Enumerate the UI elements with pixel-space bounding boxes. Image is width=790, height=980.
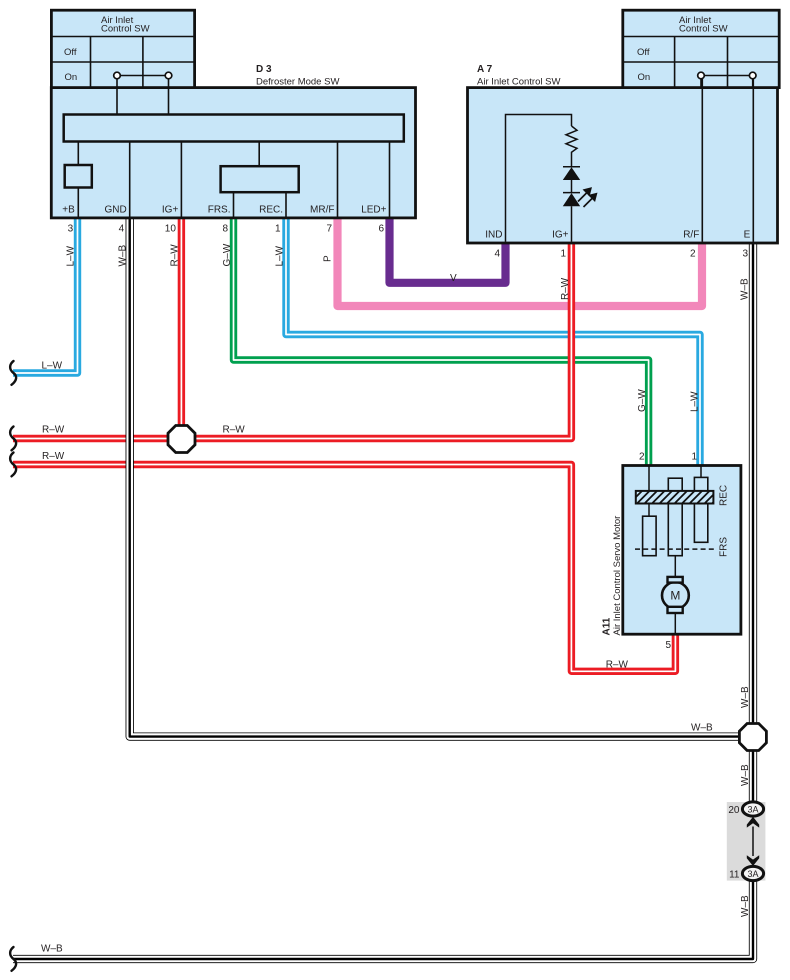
svg-text:L–W: L–W bbox=[689, 391, 700, 412]
svg-text:On: On bbox=[638, 72, 651, 83]
svg-text:L–W: L–W bbox=[274, 245, 285, 266]
svg-text:G–W: G–W bbox=[637, 389, 648, 412]
svg-text:+B: +B bbox=[62, 205, 75, 216]
svg-text:W–B: W–B bbox=[740, 895, 751, 917]
svg-text:11: 11 bbox=[729, 870, 740, 881]
svg-text:Off: Off bbox=[637, 47, 650, 58]
svg-text:1: 1 bbox=[560, 249, 566, 260]
svg-text:R–W: R–W bbox=[560, 277, 571, 300]
svg-text:W–B: W–B bbox=[740, 686, 751, 708]
svg-text:P: P bbox=[322, 255, 333, 262]
svg-text:2: 2 bbox=[639, 452, 645, 463]
svg-text:5: 5 bbox=[665, 640, 671, 651]
svg-text:4: 4 bbox=[119, 224, 125, 235]
svg-text:FRS.: FRS. bbox=[208, 205, 231, 216]
svg-text:V: V bbox=[450, 273, 457, 284]
svg-text:1: 1 bbox=[275, 224, 281, 235]
svg-text:Off: Off bbox=[64, 47, 77, 58]
svg-text:IG+: IG+ bbox=[162, 205, 179, 216]
svg-text:R–W: R–W bbox=[42, 425, 65, 436]
svg-text:On: On bbox=[65, 72, 78, 83]
svg-text:REC: REC bbox=[719, 485, 730, 506]
svg-text:A 7: A 7 bbox=[477, 64, 493, 75]
svg-text:Defroster Mode SW: Defroster Mode SW bbox=[256, 77, 339, 88]
svg-text:W–B: W–B bbox=[118, 245, 129, 267]
svg-text:L–W: L–W bbox=[42, 361, 63, 372]
svg-text:Air Inlet Control Servo Motor: Air Inlet Control Servo Motor bbox=[612, 516, 623, 636]
svg-text:8: 8 bbox=[222, 224, 228, 235]
svg-text:R–W: R–W bbox=[606, 660, 629, 671]
svg-text:R/F: R/F bbox=[683, 230, 699, 241]
svg-text:4: 4 bbox=[494, 249, 500, 260]
svg-text:M: M bbox=[670, 589, 680, 603]
svg-text:W–B: W–B bbox=[740, 278, 751, 300]
svg-text:IG+: IG+ bbox=[552, 230, 569, 241]
svg-text:6: 6 bbox=[378, 224, 384, 235]
svg-text:R–W: R–W bbox=[170, 244, 181, 267]
svg-text:7: 7 bbox=[326, 224, 332, 235]
svg-text:R–W: R–W bbox=[42, 451, 65, 462]
svg-text:D 3: D 3 bbox=[256, 64, 272, 75]
svg-text:REC.: REC. bbox=[259, 205, 283, 216]
svg-text:3: 3 bbox=[68, 224, 74, 235]
svg-text:W–B: W–B bbox=[41, 944, 63, 955]
svg-text:G–W: G–W bbox=[222, 243, 233, 266]
svg-text:R–W: R–W bbox=[223, 425, 246, 436]
svg-text:3: 3 bbox=[742, 249, 748, 260]
svg-text:3A: 3A bbox=[747, 869, 758, 879]
svg-text:Control SW: Control SW bbox=[679, 24, 728, 35]
svg-text:2: 2 bbox=[690, 249, 696, 260]
svg-text:MR/F: MR/F bbox=[310, 205, 334, 216]
svg-text:Control SW: Control SW bbox=[101, 24, 150, 35]
svg-text:L–W: L–W bbox=[65, 245, 76, 266]
svg-text:Air Inlet Control SW: Air Inlet Control SW bbox=[477, 77, 560, 88]
svg-text:10: 10 bbox=[165, 224, 177, 235]
svg-text:IND: IND bbox=[485, 230, 502, 241]
svg-text:W–B: W–B bbox=[691, 723, 713, 734]
svg-text:20: 20 bbox=[728, 805, 740, 816]
svg-text:FRS: FRS bbox=[719, 537, 730, 557]
svg-text:3A: 3A bbox=[747, 804, 758, 814]
svg-text:GND: GND bbox=[104, 205, 126, 216]
svg-text:W–B: W–B bbox=[740, 764, 751, 786]
svg-text:E: E bbox=[744, 230, 751, 241]
svg-text:A11: A11 bbox=[602, 617, 613, 635]
svg-text:1: 1 bbox=[691, 452, 697, 463]
svg-text:LED+: LED+ bbox=[361, 205, 386, 216]
